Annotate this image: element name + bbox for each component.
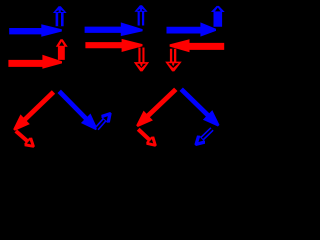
group 3: solid blue momentum arrow right xyxy=(167,22,217,36)
group 4: solid blue deflected arrow down-right xyxy=(58,90,98,131)
group 1: hollow blue force arrow up xyxy=(53,6,67,26)
group 3: hollow red force arrow down xyxy=(165,49,182,72)
group 1: red force arrow up (solid with notch) xyxy=(56,39,68,60)
group 1: solid red momentum arrow right xyxy=(8,55,62,69)
group 4: small hollow blue force arrow up-right xyxy=(95,112,112,130)
group 2: solid red momentum arrow right xyxy=(85,39,142,52)
group 3: blue force arrow up (solid with notch) xyxy=(211,6,225,27)
group 5: solid blue deflected arrow down-right xyxy=(180,88,220,127)
group 5: small hollow red force arrow down-right xyxy=(137,128,157,147)
group 2: hollow red force arrow down xyxy=(134,48,149,72)
group 1: solid blue momentum arrow right xyxy=(9,24,62,37)
group 4: solid red deflected arrow down-left xyxy=(13,90,55,131)
group 5: small hollow blue force arrow down-left xyxy=(194,127,213,146)
group 2: solid blue momentum arrow right xyxy=(85,22,143,36)
group 3: solid red momentum arrow left xyxy=(170,39,225,52)
group 2: hollow blue force arrow up xyxy=(134,5,147,25)
group 5: solid red deflected arrow down-left xyxy=(136,88,177,127)
group 4: small hollow red force arrow down-right xyxy=(15,130,35,148)
